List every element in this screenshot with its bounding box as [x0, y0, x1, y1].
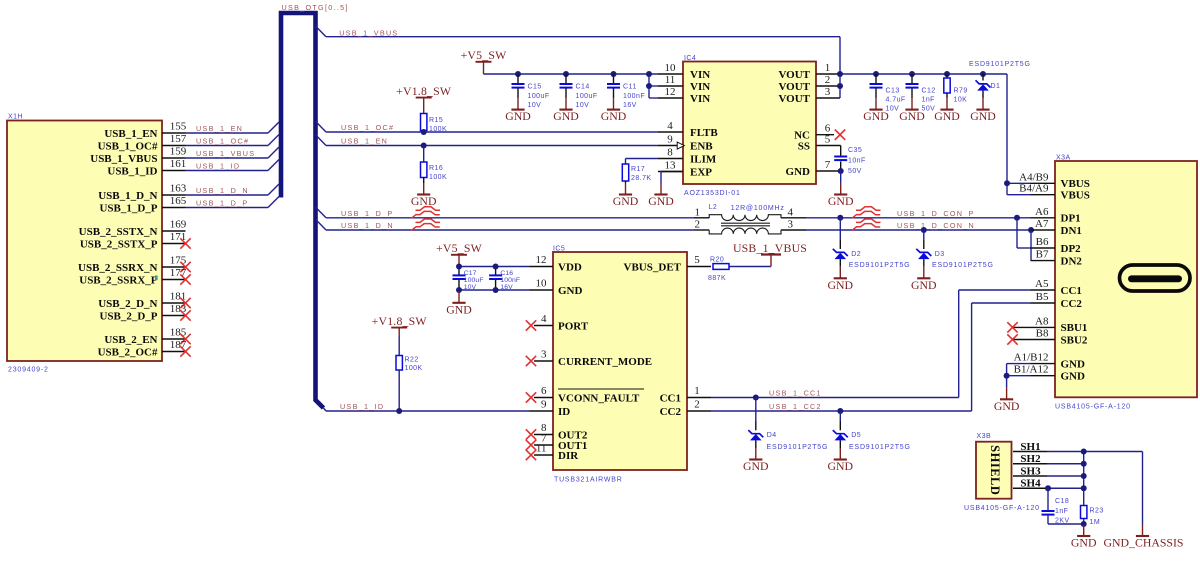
svg-text:USB_1_D_N: USB_1_D_N — [341, 221, 394, 230]
svg-text:11: 11 — [536, 443, 547, 455]
wire — [186, 197, 280, 208]
pin 3 CURRENT_MODE — [526, 349, 652, 368]
svg-text:VBUS: VBUS — [1061, 178, 1090, 190]
wire — [982, 91, 984, 99]
wire — [1047, 516, 1049, 524]
junction — [1004, 180, 1010, 186]
wire — [565, 74, 567, 83]
ground — [553, 98, 579, 123]
wire SH3 — [1047, 475, 1084, 477]
pin 2 CC2 — [660, 399, 711, 418]
svg-text:X3A: X3A — [1056, 155, 1071, 162]
junction — [838, 168, 844, 174]
svg-text:VOUT: VOUT — [778, 93, 810, 105]
svg-text:50V: 50V — [848, 168, 862, 175]
svg-text:4.7uF: 4.7uF — [886, 97, 906, 104]
power port USB_1_VBUS — [733, 241, 807, 267]
junction — [1081, 473, 1087, 479]
svg-text:A7: A7 — [1035, 218, 1049, 230]
svg-text:C11: C11 — [623, 84, 637, 91]
capacitor C12 — [906, 84, 919, 88]
svg-text:165: 165 — [170, 195, 187, 207]
wire — [186, 160, 280, 171]
svg-text:GND: GND — [1061, 371, 1086, 383]
pin 9 ENB — [658, 134, 713, 153]
svg-text:10V: 10V — [464, 284, 477, 291]
svg-text:USB_OTG[0..5]: USB_OTG[0..5] — [282, 3, 349, 12]
pin 4 L2 — [781, 206, 806, 218]
wire DN2 branch — [1030, 230, 1032, 261]
junction — [515, 71, 521, 77]
wire — [946, 93, 948, 98]
TVS diode D3 — [916, 249, 931, 259]
svg-text:100K: 100K — [405, 365, 423, 372]
junction — [944, 71, 950, 77]
svg-text:USB_1_EN: USB_1_EN — [196, 124, 243, 133]
pin SH2 — [1013, 453, 1047, 465]
svg-text:1nF: 1nF — [1055, 508, 1068, 515]
TVS diode D2 — [833, 249, 848, 259]
svg-text:B4/A9: B4/A9 — [1019, 183, 1049, 195]
svg-text:B8: B8 — [1036, 328, 1049, 340]
svg-text:100uF: 100uF — [464, 277, 484, 284]
junction — [1081, 485, 1087, 491]
pin 1 CC1 — [660, 385, 711, 404]
svg-text:GND: GND — [970, 109, 996, 123]
svg-text:R16: R16 — [429, 165, 443, 172]
power +V5_SW — [461, 48, 508, 74]
wire — [839, 440, 841, 448]
svg-text:100K: 100K — [429, 126, 447, 133]
wire SS — [840, 146, 842, 172]
svg-text:CC2: CC2 — [1061, 298, 1083, 310]
junction — [646, 83, 652, 89]
svg-text:DN1: DN1 — [1061, 225, 1082, 237]
svg-text:2: 2 — [694, 399, 700, 411]
ground R79 — [934, 98, 960, 123]
pin 183 USB_2_D_P — [99, 303, 190, 322]
wire — [565, 89, 567, 99]
resistor R15 — [421, 114, 427, 131]
svg-text:R22: R22 — [405, 357, 419, 364]
svg-text:USB_2_D_P: USB_2_D_P — [99, 310, 157, 322]
svg-text:USB_1_D_CON_P: USB_1_D_CON_P — [897, 209, 975, 218]
ground D1 — [970, 98, 996, 123]
svg-text:D2: D2 — [851, 251, 861, 258]
pin B8 SBU2 — [1007, 328, 1088, 347]
wire SH1 to chassis — [1047, 452, 1143, 525]
junction — [1081, 449, 1087, 455]
wire +V5_SW rail — [484, 74, 659, 98]
differential pair directive (right) — [852, 207, 881, 218]
svg-text:A5: A5 — [1035, 278, 1049, 290]
wire — [423, 178, 425, 184]
svg-text:USB_1_VBUS: USB_1_VBUS — [339, 28, 398, 37]
op-amp U IC5 TUSB321 — [553, 252, 687, 470]
svg-text:100nF: 100nF — [623, 93, 645, 100]
svg-text:USB_1_CC2: USB_1_CC2 — [769, 402, 822, 411]
wire EXP — [661, 172, 683, 184]
pin 2 VOUT — [778, 74, 840, 93]
pin 5 SS — [798, 134, 841, 153]
wire — [495, 267, 497, 276]
svg-text:C12: C12 — [922, 88, 936, 95]
pin 169 USB_2_SSTX_N — [79, 219, 187, 238]
junction — [1004, 373, 1010, 379]
pin 171 USB_2_SSTX_P — [80, 231, 191, 250]
wire USB_1_EN — [316, 135, 659, 146]
junction — [1045, 485, 1051, 491]
value labels — [886, 88, 906, 113]
svg-text:SH4: SH4 — [1020, 478, 1041, 490]
TVS diode D4 — [748, 430, 763, 440]
svg-text:USB_2_D_N: USB_2_D_N — [98, 298, 157, 310]
svg-text:A6: A6 — [1035, 206, 1049, 218]
svg-text:VBUS_DET: VBUS_DET — [624, 261, 682, 273]
value labels — [500, 270, 520, 291]
svg-text:100nF: 100nF — [500, 277, 520, 284]
svg-text:C14: C14 — [576, 84, 590, 91]
pin 7 GND — [786, 159, 841, 178]
pin 11 VIN — [658, 74, 710, 93]
svg-text:ESD9101P2T5G: ESD9101P2T5G — [849, 444, 911, 451]
wire — [982, 74, 984, 81]
svg-text:ESD9101P2T5G: ESD9101P2T5G — [969, 61, 1031, 68]
pin 10 GND — [530, 278, 583, 297]
svg-text:USB_1_D_P: USB_1_D_P — [341, 209, 393, 218]
junction — [921, 227, 927, 233]
wire SH2 — [1047, 463, 1084, 465]
pin 8 OUT2 — [526, 422, 588, 441]
svg-text:7: 7 — [825, 159, 831, 171]
svg-text:3: 3 — [788, 219, 794, 231]
svg-text:USB_1_VBUS: USB_1_VBUS — [196, 149, 255, 158]
junction — [493, 264, 499, 270]
TVS diode D5 — [833, 430, 848, 440]
svg-text:ESD9101P2T5G: ESD9101P2T5G — [767, 444, 829, 451]
pin 163 USB_1_D_N — [98, 183, 187, 202]
svg-text:USB_2_EN: USB_2_EN — [104, 334, 157, 346]
node marker on X1H edge — [155, 276, 158, 281]
wire USB_1_D_N — [316, 219, 695, 230]
svg-text:10nF: 10nF — [848, 158, 866, 165]
svg-text:2309409-2: 2309409-2 — [8, 367, 49, 374]
ground — [505, 98, 531, 123]
no-connect NC — [835, 130, 845, 140]
pin 157 USB_1_OC# — [98, 133, 187, 152]
pin B7 DN2 — [1031, 249, 1083, 268]
resistor R16 — [421, 162, 427, 178]
svg-text:CURRENT_MODE: CURRENT_MODE — [558, 356, 652, 368]
value labels — [623, 84, 645, 110]
resistor R20 — [713, 264, 729, 270]
svg-text:USB_1_EN: USB_1_EN — [341, 137, 388, 146]
pin 10 VIN — [658, 62, 710, 81]
junction — [1081, 521, 1087, 527]
wire USB_1_OC# — [316, 121, 659, 132]
wire — [923, 259, 925, 267]
svg-text:USB_1_D_P: USB_1_D_P — [196, 199, 248, 208]
svg-text:USB_1_D_N: USB_1_D_N — [196, 186, 249, 195]
pin 177 USB_2_SSRX_P — [79, 267, 190, 286]
svg-text:8: 8 — [667, 147, 673, 159]
svg-text:VOUT: VOUT — [778, 69, 810, 81]
svg-text:IC5: IC5 — [553, 246, 565, 253]
ground D4 — [743, 448, 769, 473]
junction — [421, 143, 427, 149]
svg-text:3: 3 — [541, 349, 547, 361]
value labels C18 1nF 2KV — [1055, 498, 1070, 525]
ground X3A — [994, 388, 1020, 413]
svg-text:100K: 100K — [429, 174, 447, 181]
wire — [495, 280, 497, 290]
svg-text:1nF: 1nF — [922, 97, 935, 104]
wire — [613, 89, 615, 99]
svg-text:TUSB321AIRWBR: TUSB321AIRWBR — [554, 477, 623, 484]
wire — [839, 411, 841, 421]
USB-C receptacle glyph — [1120, 265, 1191, 291]
svg-text:A1/B12: A1/B12 — [1014, 352, 1049, 364]
svg-text:USB_1_VBUS: USB_1_VBUS — [733, 241, 807, 255]
ground C17 — [446, 291, 472, 316]
ground — [601, 98, 627, 123]
pin 3 L2 — [781, 219, 806, 231]
svg-text:X1H: X1H — [8, 114, 23, 121]
value labels R79 10K — [954, 88, 968, 104]
svg-text:GND: GND — [828, 459, 854, 473]
connector X1H — [7, 121, 162, 362]
pin A6 DP1 — [1031, 206, 1081, 225]
svg-text:4: 4 — [788, 206, 794, 218]
svg-text:GND: GND — [863, 109, 889, 123]
wire — [186, 184, 280, 195]
svg-text:GND: GND — [1071, 536, 1097, 550]
svg-text:GND: GND — [828, 278, 854, 292]
svg-text:10K: 10K — [954, 97, 968, 104]
junction — [980, 71, 986, 77]
svg-text:GND: GND — [558, 285, 583, 297]
wire — [186, 122, 280, 133]
junction — [563, 71, 569, 77]
svg-text:GND: GND — [601, 109, 627, 123]
svg-text:GND: GND — [899, 109, 925, 123]
svg-text:ESD9101P2T5G: ESD9101P2T5G — [932, 262, 994, 269]
svg-text:IC4: IC4 — [684, 55, 696, 62]
svg-text:FLTB: FLTB — [690, 127, 718, 139]
pin 13 EXP — [658, 160, 712, 179]
svg-text:C17: C17 — [464, 270, 477, 277]
wire — [911, 74, 913, 83]
svg-text:CC2: CC2 — [660, 406, 682, 418]
pin A8 SBU1 — [1007, 315, 1087, 334]
pin 155 USB_1_EN — [104, 121, 186, 140]
junction — [1081, 461, 1087, 467]
svg-text:C35: C35 — [848, 147, 862, 154]
svg-text:C18: C18 — [1055, 498, 1069, 505]
ground EXP — [648, 183, 674, 208]
svg-text:USB_1_VBUS: USB_1_VBUS — [90, 153, 157, 165]
op-amp U IC4 power switch — [683, 62, 816, 185]
svg-text:USB_2_SSTX_P: USB_2_SSTX_P — [80, 238, 158, 250]
svg-text:100uF: 100uF — [576, 93, 598, 100]
wire USB_1_ID — [324, 408, 530, 411]
svg-text:ESD9101P2T5G: ESD9101P2T5G — [849, 262, 911, 269]
svg-text:1: 1 — [694, 385, 700, 397]
svg-text:R23: R23 — [1090, 507, 1104, 514]
svg-text:GND: GND — [446, 302, 472, 316]
svg-text:GND: GND — [911, 278, 937, 292]
TVS diode D1 — [976, 80, 991, 90]
capacitor C18 — [1047, 488, 1049, 510]
resistor R22 — [396, 356, 402, 371]
svg-text:GND: GND — [786, 166, 811, 178]
wire USB_1_VBUS — [316, 26, 841, 74]
resistor R79 — [944, 78, 950, 93]
wire — [839, 259, 841, 267]
svg-text:SH3: SH3 — [1020, 465, 1041, 477]
svg-text:USB_1_ID: USB_1_ID — [196, 162, 240, 171]
value labels R23 1M — [1090, 507, 1104, 526]
wire — [875, 89, 877, 99]
wire USB_1_CC1 — [711, 290, 1031, 398]
value labels C35 10nF 50V — [848, 147, 866, 175]
svg-text:USB_1_ID: USB_1_ID — [340, 402, 384, 411]
wire — [755, 398, 757, 422]
svg-text:CC1: CC1 — [660, 392, 681, 404]
pin 3 VOUT — [778, 86, 840, 105]
value labels — [528, 84, 550, 110]
svg-text:USB_1_D_P: USB_1_D_P — [99, 202, 157, 214]
svg-text:28.7K: 28.7K — [631, 175, 652, 182]
wire VOUT rail — [840, 74, 1031, 195]
svg-text:CC1: CC1 — [1061, 285, 1082, 297]
wire VDD rail — [459, 267, 530, 291]
junction — [456, 287, 462, 293]
junction — [646, 71, 652, 77]
svg-text:B6: B6 — [1036, 236, 1049, 248]
pin 159 USB_1_VBUS — [90, 146, 187, 165]
pin 11 DIR — [526, 443, 579, 462]
pin 161 USB_1_ID — [107, 158, 186, 177]
svg-text:3: 3 — [825, 86, 831, 98]
pin 5 VBUS_DET — [624, 254, 711, 273]
svg-text:D5: D5 — [851, 432, 861, 439]
pin 7 OUT1 — [526, 433, 588, 452]
wire DP2 branch — [1017, 218, 1031, 248]
wire — [840, 171, 842, 183]
svg-text:USB_1_OC#: USB_1_OC# — [98, 140, 158, 152]
wire — [186, 135, 280, 146]
svg-text:USB_1_EN: USB_1_EN — [104, 128, 157, 140]
ground D2 — [828, 267, 854, 292]
svg-text:B1/A12: B1/A12 — [1014, 364, 1049, 376]
svg-text:155: 155 — [170, 121, 187, 133]
svg-text:1M: 1M — [1090, 519, 1101, 526]
capacitor C35 — [834, 157, 847, 161]
svg-text:9: 9 — [667, 134, 673, 146]
svg-text:DIR: DIR — [558, 450, 579, 462]
value labels R22 100K — [405, 357, 423, 372]
wire — [517, 89, 519, 99]
svg-text:4: 4 — [667, 120, 673, 132]
svg-text:AOZ1353DI-01: AOZ1353DI-01 — [684, 190, 741, 197]
pin 181 USB_2_D_N — [98, 291, 190, 310]
power +V5_SW (IC5) — [436, 241, 483, 267]
svg-text:USB_1_CC1: USB_1_CC1 — [769, 389, 822, 398]
pin 2 L2 — [694, 219, 709, 231]
ground GND_CHASSIS — [1104, 525, 1184, 550]
svg-text:1: 1 — [825, 62, 831, 74]
svg-text:9: 9 — [541, 399, 547, 411]
svg-text:PORT: PORT — [558, 320, 589, 332]
pin A4/B9 VBUS — [1019, 171, 1090, 190]
svg-text:B5: B5 — [1036, 291, 1049, 303]
pin 1 VOUT — [778, 62, 840, 81]
pin 6 NC — [794, 123, 834, 142]
svg-text:X3B: X3B — [977, 433, 992, 440]
capacitor C13 — [870, 84, 883, 88]
svg-text:12: 12 — [536, 254, 547, 266]
junction — [611, 71, 617, 77]
svg-text:D3: D3 — [935, 251, 945, 258]
power +V1.8_SW (R22) — [372, 314, 428, 337]
pin 6 VCONN_FAULT — [526, 385, 640, 404]
wire shield bus — [1083, 452, 1085, 506]
svg-text:+V1.8_SW: +V1.8_SW — [372, 314, 428, 328]
svg-text:169: 169 — [170, 219, 187, 231]
svg-text:SH2: SH2 — [1020, 453, 1041, 465]
pin 4 PORT — [526, 313, 589, 332]
wire — [839, 218, 841, 240]
svg-text:DP2: DP2 — [1061, 243, 1082, 255]
svg-text:10: 10 — [665, 62, 677, 74]
junction — [1014, 215, 1020, 221]
svg-text:D1: D1 — [991, 83, 1001, 90]
svg-text:VOUT: VOUT — [778, 81, 810, 93]
svg-text:12: 12 — [665, 86, 676, 98]
svg-text:D4: D4 — [767, 432, 777, 439]
svg-text:SH1: SH1 — [1020, 441, 1040, 453]
svg-text:887K: 887K — [708, 275, 726, 282]
pin 187 USB_2_OC# — [98, 339, 191, 358]
svg-text:+V5_SW: +V5_SW — [436, 241, 483, 255]
svg-text:R17: R17 — [631, 166, 645, 173]
junction — [493, 287, 499, 293]
svg-text:USB_2_SSRX_P: USB_2_SSRX_P — [79, 274, 158, 286]
svg-text:A4/B9: A4/B9 — [1019, 171, 1049, 183]
svg-text:2: 2 — [695, 219, 701, 231]
junction — [837, 408, 843, 414]
svg-text:16V: 16V — [500, 284, 513, 291]
input marker ENB — [677, 142, 684, 149]
svg-text:SBU2: SBU2 — [1061, 334, 1088, 346]
inductor L2 common mode choke — [709, 215, 781, 234]
junction — [753, 395, 759, 401]
pin SH3 — [1013, 465, 1047, 477]
pin A7 DN1 — [1031, 218, 1082, 237]
svg-text:C15: C15 — [528, 84, 542, 91]
svg-text:VDD: VDD — [558, 261, 582, 273]
svg-text:GND: GND — [743, 459, 769, 473]
value labels R16 100K — [429, 165, 447, 181]
wire — [923, 230, 925, 240]
svg-text:VIN: VIN — [690, 69, 710, 81]
pin B5 CC2 — [1031, 291, 1083, 310]
svg-text:A8: A8 — [1035, 315, 1049, 327]
svg-text:USB_2_SSTX_N: USB_2_SSTX_N — [79, 226, 158, 238]
svg-text:GND: GND — [648, 194, 674, 208]
svg-text:SBU1: SBU1 — [1061, 322, 1088, 334]
